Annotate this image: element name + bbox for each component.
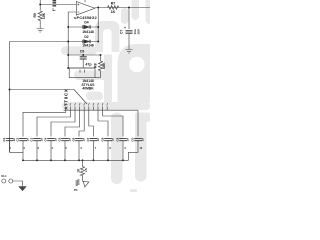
op-amp +/- marks: [77, 4, 79, 13]
watermark band 2 right: [135, 113, 150, 123]
svg-text:10K: 10K: [42, 12, 46, 19]
svg-text:1n: 1n: [82, 138, 86, 142]
node bus K9: [122, 159, 124, 161]
svg-text:P1: P1: [74, 188, 78, 192]
battery connector bottom left: [2, 179, 26, 191]
svg-text:1n: 1n: [111, 138, 115, 142]
watermark B block: [118, 44, 151, 103]
output chain: volume resistor and speaker: [76, 160, 89, 187]
svg-text:16V: 16V: [136, 29, 140, 34]
svg-text:D2: D2: [84, 35, 88, 39]
svg-text:C9: C9: [80, 50, 85, 54]
watermark hole circle 1: [129, 57, 145, 73]
op-amp power stub: [84, 0, 86, 2]
diode D2 symbol: [83, 40, 91, 44]
wire R9 top: [39, 5, 41, 11]
svg-text:KL1: KL1: [2, 174, 8, 178]
wire R8 bottom stub: [100, 71, 102, 78]
watermark side band: [74, 71, 106, 81]
svg-text:1N4148: 1N4148: [82, 43, 94, 47]
svg-text:R7: R7: [111, 2, 116, 6]
inductor L1 striped body: [53, 0, 57, 11]
wire input rail: [40, 4, 76, 6]
svg-text:C2: C2: [16, 137, 20, 141]
contact tick 1: [79, 70, 81, 73]
wire op-amp inverting input: [68, 12, 76, 68]
wire to element: [82, 180, 84, 182]
wire pin4 to cap5: [65, 110, 80, 136]
node bus K2: [22, 159, 24, 161]
capacitor K8: [104, 139, 112, 141]
ground GND3 earth triangle: [19, 187, 26, 191]
svg-text:1n: 1n: [141, 138, 145, 142]
watermark horizontal band: [62, 102, 150, 110]
wire pin2 to cap3: [37, 110, 70, 136]
node output junction 2: [128, 7, 130, 9]
capacitor K5: [61, 139, 69, 141]
diode D4 wire: [68, 26, 98, 28]
node V+ junction: [39, 4, 41, 6]
capacitor K1: [6, 139, 14, 141]
node C9 top: [82, 54, 84, 56]
wire left column: [9, 42, 11, 153]
wire lower node row: [68, 67, 95, 69]
bus wire: [23, 159, 129, 161]
svg-text:C8: C8: [101, 137, 105, 141]
stylus diagonal: [74, 90, 87, 105]
svg-text:C6: C6: [72, 137, 76, 141]
capacitor K4: [47, 139, 55, 141]
svg-text:C7: C7: [86, 137, 90, 141]
watermark: background trace graphics: [61, 0, 154, 192]
wire mid node row: [68, 54, 100, 56]
svg-text:1K: 1K: [76, 168, 80, 173]
watermark bar top-right 2: [132, 0, 140, 20]
wire R9 bottom: [39, 20, 41, 28]
node D2 right end: [97, 41, 99, 43]
wire pin3 to cap4: [51, 110, 75, 136]
capacitor row: [6, 139, 142, 141]
trim resistor element: [76, 180, 79, 186]
watermark A bar: [104, 55, 112, 110]
watermark bar top-right 1: [121, 8, 129, 24]
svg-text:1n: 1n: [126, 138, 130, 142]
node bus K8: [107, 159, 109, 161]
svg-text:C0: C0: [131, 137, 135, 141]
wire pin5 to cap6: [79, 110, 84, 136]
svg-text:R8: R8: [94, 63, 98, 68]
svg-text:C9: C9: [116, 137, 120, 141]
bus pin number specks: [10, 147, 143, 150]
resistor R8: [98, 61, 102, 71]
node bus K7: [92, 159, 94, 161]
node D4 right: [97, 26, 99, 28]
bus junction dots: [22, 159, 124, 161]
op-amp IC1 triangle: [76, 2, 95, 16]
svg-text:40MBK: 40MBK: [82, 87, 94, 91]
connector pin circle 1: [2, 179, 6, 183]
ground GND1: [37, 29, 44, 33]
capacitor K7: [90, 139, 98, 141]
header pin ticks: [66, 107, 107, 111]
resistor R7: [108, 6, 119, 10]
wire connector to ground: [13, 181, 23, 186]
node mid row left: [67, 54, 69, 56]
svg-text:ATT8CX: ATT8CX: [63, 88, 68, 109]
svg-text:R9: R9: [33, 13, 37, 17]
watermark n-shape shoulder: [95, 21, 120, 52]
keyboard contact box: [69, 68, 95, 78]
svg-text:uPC4558G2: uPC4558G2: [74, 16, 97, 20]
svg-text:D4: D4: [84, 21, 88, 25]
svg-text:+: +: [124, 26, 126, 30]
node stylus wire: [9, 89, 11, 91]
wire pin9 to cap9: [103, 110, 123, 136]
header base line: [64, 109, 139, 111]
resistor R9: [38, 11, 42, 21]
wire C6 top: [128, 8, 130, 30]
resistor R10: [80, 167, 84, 176]
capacitor K3: [33, 139, 41, 141]
node D4 left: [67, 26, 69, 28]
wire V+ stub: [39, 0, 41, 5]
watermark small dash bottom: [130, 189, 137, 192]
diode D2 wire incl box top edge: [10, 41, 99, 43]
cap row labels (rotated): [2, 137, 145, 141]
node bus output: [82, 159, 84, 161]
capacitor K9: [119, 139, 127, 141]
watermark bar top-right edge: [146, 0, 154, 24]
wire output down: [97, 8, 99, 42]
watermark pill 1: [111, 113, 123, 185]
connector pin circle 2: [9, 179, 13, 183]
svg-text:C5: C5: [58, 137, 62, 141]
capacitor K2: [19, 139, 27, 141]
node bus K3: [36, 159, 38, 161]
node mid row right: [100, 54, 102, 56]
wire output rail: [95, 7, 150, 9]
junction dots: [9, 4, 130, 91]
svg-text:C7: C7: [119, 30, 123, 34]
wire C9 bottom: [82, 60, 84, 69]
wire R8 top stub: [100, 55, 102, 61]
wire pin1 to cap2: [23, 110, 66, 136]
watermark capsule mid: [61, 47, 97, 56]
svg-text:68K: 68K: [102, 62, 106, 69]
keyboard header and fan-out: [23, 103, 138, 137]
node output junction 1: [97, 7, 99, 9]
svg-text:1n: 1n: [96, 138, 100, 142]
diode D4 symbol: [83, 25, 91, 29]
wire pin8 to cap8: [98, 110, 108, 136]
svg-text:C1: C1: [2, 137, 6, 141]
ground GND2: [126, 50, 133, 54]
wire C6 bottom: [128, 34, 130, 50]
contact tick 2: [84, 70, 86, 73]
wire stylus horizontal: [10, 89, 75, 91]
svg-text:LS: LS: [84, 168, 88, 172]
cap bottom wires to bus: [10, 141, 139, 161]
node bus K6: [78, 159, 80, 161]
labels: [33, 2, 140, 110]
wire bus to R10: [82, 160, 84, 166]
svg-text:C4: C4: [44, 137, 48, 141]
svg-text:47p: 47p: [85, 63, 92, 67]
node bus K4: [50, 159, 52, 161]
watermark left capsule: [86, 92, 103, 101]
watermark pill 2: [135, 113, 147, 182]
node D2 left: [67, 41, 69, 43]
trim arrow triangle: [83, 181, 89, 187]
node bus K5: [64, 159, 66, 161]
capacitor K10: [134, 139, 142, 141]
header pin labels: [65, 103, 107, 106]
svg-text:C3: C3: [30, 137, 34, 141]
wire pin10 to cap10: [137, 110, 139, 136]
capacitor C9 plates: [80, 57, 87, 59]
node lower row left: [67, 67, 69, 69]
wire R8 loop: [95, 77, 101, 79]
wire R10 bottom: [82, 176, 84, 181]
svg-text:1K: 1K: [111, 10, 116, 14]
capacitor C6 plates: [126, 31, 133, 33]
capacitor K6: [75, 139, 83, 141]
L1 label: [53, 8, 55, 10]
wire pin6 to cap7: [89, 110, 94, 136]
svg-text:1N4148: 1N4148: [82, 30, 94, 34]
